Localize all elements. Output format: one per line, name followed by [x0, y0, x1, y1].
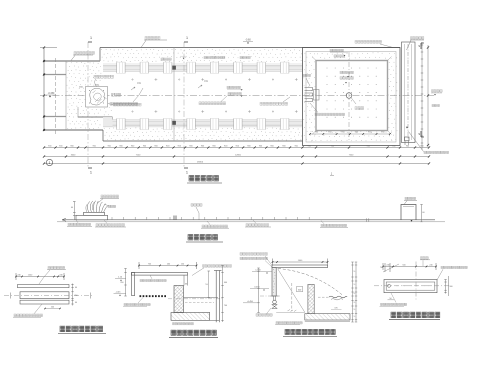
svg-text:0.450: 0.450 — [254, 286, 260, 288]
svg-text:25800: 25800 — [197, 161, 204, 163]
svg-text:S: S — [418, 132, 420, 136]
svg-text:50: 50 — [353, 284, 355, 286]
svg-text:50: 50 — [353, 271, 355, 273]
svg-text:50: 50 — [353, 302, 355, 304]
svg-text:700: 700 — [224, 305, 227, 307]
svg-text:60: 60 — [75, 302, 77, 304]
svg-text:S: S — [418, 44, 420, 48]
svg-text:250: 250 — [74, 295, 77, 297]
svg-text:70: 70 — [380, 267, 382, 269]
svg-text:-0.450: -0.450 — [247, 301, 254, 303]
svg-text:-0.60: -0.60 — [245, 39, 251, 42]
svg-text:850: 850 — [121, 282, 124, 284]
svg-text:300: 300 — [449, 286, 452, 288]
svg-text:60: 60 — [75, 287, 77, 289]
svg-text:1: 1 — [186, 36, 188, 40]
svg-text:1: 1 — [186, 171, 188, 175]
svg-text:-0.45: -0.45 — [116, 292, 122, 294]
svg-text:50: 50 — [353, 309, 355, 311]
svg-text:500: 500 — [51, 306, 54, 308]
svg-text:50: 50 — [353, 293, 355, 295]
svg-text:1: 1 — [90, 36, 92, 40]
svg-text:600: 600 — [224, 282, 227, 284]
svg-text:500: 500 — [402, 264, 405, 266]
svg-text:240: 240 — [386, 264, 389, 266]
svg-text:700: 700 — [205, 284, 208, 286]
svg-text:12800: 12800 — [235, 154, 242, 156]
svg-text:1: 1 — [90, 171, 92, 175]
svg-text:50: 50 — [353, 316, 355, 318]
svg-text:1: 1 — [49, 161, 51, 165]
svg-text:300: 300 — [298, 289, 301, 291]
svg-text:240: 240 — [429, 264, 432, 266]
